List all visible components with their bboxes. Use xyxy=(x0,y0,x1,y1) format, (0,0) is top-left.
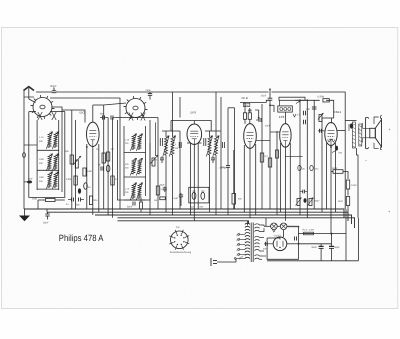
svg-text:EK2: EK2 xyxy=(80,111,86,115)
svg-text:EF8: EF8 xyxy=(279,115,285,119)
label ChB xyxy=(242,96,248,100)
capacitor blob mid xyxy=(304,198,321,203)
wire x300 xyxy=(299,99,301,215)
wire x180 xyxy=(179,97,181,209)
wire EF8 feed xyxy=(285,156,302,158)
resistor R10 rst xyxy=(154,197,165,202)
capacitor C22 xyxy=(297,111,306,117)
capacitor mid300 xyxy=(300,190,307,194)
switch contact X2 xyxy=(52,112,56,120)
svg-text:4KΩ: 4KΩ xyxy=(338,200,343,203)
switch contact X1 xyxy=(38,112,42,120)
tube EBC3 xyxy=(244,124,257,149)
label mains xyxy=(238,255,244,260)
wire x228 xyxy=(227,108,229,215)
capacitor T1 side xyxy=(160,138,181,148)
wire EBC3 pin3 xyxy=(256,141,270,216)
wire x235 xyxy=(228,108,235,209)
label EK2 xyxy=(80,111,86,115)
potentiometer P1 xyxy=(279,97,305,103)
resistor R4v xyxy=(83,168,93,176)
arrow det1 xyxy=(293,114,296,117)
svg-text:0.1μF: 0.1μF xyxy=(172,197,179,200)
svg-text:(A): (A) xyxy=(302,167,305,170)
wire rect loop xyxy=(267,238,298,259)
wire ps fuse line xyxy=(299,233,347,235)
wire trans top xyxy=(345,120,356,122)
resistor R19 xyxy=(338,197,350,206)
svg-text:25nF: 25nF xyxy=(261,95,267,98)
speck right margin 2 xyxy=(389,211,390,212)
wire lamps right xyxy=(287,226,299,238)
rotary switch S1 xyxy=(31,95,55,119)
wire OSC row3 bot xyxy=(124,199,146,201)
wire OSC row1 bot xyxy=(124,152,146,154)
svg-text:40nF: 40nF xyxy=(332,167,338,170)
label L3 xyxy=(39,158,45,165)
svg-text:0.5M: 0.5M xyxy=(66,178,71,181)
transformer T4 primary xyxy=(245,221,250,259)
wire EF9 pin2 xyxy=(193,144,195,220)
wire EF8 pin3 xyxy=(289,143,291,209)
wire x108 xyxy=(107,118,109,216)
capacitor C4 50nF xyxy=(100,112,108,119)
wire RF box outer xyxy=(29,112,65,198)
wire x274top xyxy=(270,105,274,112)
svg-text:1nF: 1nF xyxy=(306,108,311,111)
capacitor C26 plate xyxy=(295,237,297,241)
resistor R3 05M xyxy=(66,176,77,185)
wire RF row1 bot xyxy=(37,149,59,151)
wire AZ1 right xyxy=(287,243,300,245)
wire lamps mid xyxy=(277,226,283,237)
capacitor C8b xyxy=(66,198,74,207)
trimmer TR2 xyxy=(150,123,158,167)
wire res right xyxy=(326,100,334,118)
wire bus rail 2 xyxy=(47,212,348,221)
label L1 xyxy=(39,136,44,143)
label Pu2 xyxy=(303,228,315,231)
coil L7 L8 pair xyxy=(130,134,142,152)
svg-text:0.4M: 0.4M xyxy=(351,184,356,187)
ground main xyxy=(19,209,30,221)
resistor R5b xyxy=(89,196,98,205)
wire EBL1 pin2 xyxy=(330,145,332,235)
wire bus rail 4 xyxy=(118,218,355,228)
wire top rail xyxy=(56,91,269,93)
coil L11 L12 pair xyxy=(130,183,142,201)
wire T2 top xyxy=(205,92,221,137)
wire RF inner left xyxy=(36,120,38,190)
wire x270 xyxy=(269,105,271,209)
wire T2 down1 xyxy=(209,155,211,212)
label L11 xyxy=(125,188,130,195)
label T2 xyxy=(220,166,228,169)
svg-text:Rst: Rst xyxy=(154,199,158,202)
wire r19 down xyxy=(347,206,349,216)
svg-text:50μF: 50μF xyxy=(315,199,321,202)
svg-text:m: m xyxy=(161,188,163,191)
wire mains lead xyxy=(217,259,236,263)
wire osc top xyxy=(50,98,120,209)
resistor R13 xyxy=(248,108,252,124)
wire trans bottom xyxy=(357,148,359,218)
svg-text:1000: 1000 xyxy=(39,176,45,179)
label AZ1 xyxy=(274,234,282,237)
label Philips 478 A xyxy=(59,233,104,243)
wire bus rail 1 xyxy=(24,209,344,218)
wire T2 down2 xyxy=(215,155,217,215)
label A M1 xyxy=(298,165,319,170)
svg-text:2M: 2M xyxy=(175,147,178,150)
capacitor C7e xyxy=(78,188,81,194)
wire EF9 topcap xyxy=(171,121,211,132)
svg-text:50nF: 50nF xyxy=(312,246,318,249)
wire EK2 left rail xyxy=(62,110,85,209)
capacitor C50nF bus xyxy=(43,212,50,224)
speaker terminal top xyxy=(374,116,382,125)
wire r17 left xyxy=(331,171,333,173)
svg-text:Sockelbezeichnung: Sockelbezeichnung xyxy=(170,251,192,254)
capacitor C28 elco xyxy=(329,244,340,261)
wire x221 xyxy=(220,97,222,209)
coil L9 L10 pair xyxy=(130,158,142,176)
wire EF8 pin2 xyxy=(284,147,286,221)
switch contact X4 xyxy=(141,113,145,121)
tube EK2 xyxy=(87,122,100,146)
capacitor T2 side xyxy=(204,138,225,148)
capacitor C20 25nF xyxy=(261,88,273,105)
transformer T4 core xyxy=(251,223,253,263)
electrolytic box xyxy=(189,187,209,208)
wire speaker return xyxy=(357,218,359,261)
wire RF box top xyxy=(29,111,65,113)
output transformer T3 xyxy=(352,122,362,148)
trimmer TRb xyxy=(308,198,314,206)
svg-text:D.F: D.F xyxy=(176,226,180,229)
speck mid margin xyxy=(365,160,366,161)
resistor R12 xyxy=(243,103,246,124)
svg-text:0.25M: 0.25M xyxy=(317,95,324,98)
transformer T4 taps xyxy=(236,232,245,257)
capacitor C11e xyxy=(106,165,110,172)
wire antenna left drop xyxy=(23,91,25,210)
wire EK2 pin1 xyxy=(86,144,88,209)
svg-text:EBL1: EBL1 xyxy=(334,110,342,114)
svg-text:40655: 40655 xyxy=(357,128,360,134)
tube AZ1 xyxy=(273,237,287,251)
capacitor C6e xyxy=(84,183,92,189)
wire lamps left xyxy=(264,218,271,227)
resistor R6 1M xyxy=(96,148,105,163)
svg-text:150pF: 150pF xyxy=(50,85,58,88)
wire x277 xyxy=(270,131,280,215)
wire r18 down xyxy=(347,189,349,196)
svg-text:EF9: EF9 xyxy=(191,111,197,115)
wire x314 xyxy=(313,100,315,209)
wire OSC box outer xyxy=(118,120,151,200)
wire x262 xyxy=(261,104,263,209)
capacitor C19h xyxy=(256,118,271,128)
capacitor C25 xyxy=(349,123,353,131)
terminal left xyxy=(23,145,38,157)
capacitor C1 150pF xyxy=(50,85,58,93)
trimmer TR3 xyxy=(318,113,324,122)
wire EF8 grid xyxy=(284,112,286,124)
wire EBC3 pin2 xyxy=(249,148,251,217)
wire B+ low xyxy=(344,170,346,209)
wire antenna to switch xyxy=(24,97,36,103)
wire RF inner right xyxy=(58,120,60,190)
wire OSC row2 bot xyxy=(124,176,146,178)
coil L5 L6 pair xyxy=(46,172,58,190)
capacitor C16 01 xyxy=(172,193,183,206)
svg-text:25nF: 25nF xyxy=(146,89,152,92)
wire EF8 pin1 xyxy=(280,143,282,212)
wire RF down xyxy=(38,200,40,209)
wire EK2 top xyxy=(93,105,104,122)
wire bus rail 3 xyxy=(95,215,352,224)
resistor R11 xyxy=(232,150,242,209)
antenna A1 xyxy=(24,87,35,99)
coil L3 L4 pair xyxy=(46,154,58,172)
svg-text:1M: 1M xyxy=(111,148,114,151)
capacitor C13 pad xyxy=(156,186,162,195)
svg-text:1000: 1000 xyxy=(39,158,45,161)
label lamps xyxy=(288,226,300,229)
capacitor C9b xyxy=(76,198,84,207)
wire AZ1 left cap xyxy=(263,242,273,251)
speaker terminal bottom xyxy=(374,143,382,150)
wire T1 down2 xyxy=(172,155,174,215)
wire x307 xyxy=(306,99,308,217)
label L9 xyxy=(125,163,129,170)
wire top left xyxy=(36,91,52,93)
wire top rail right xyxy=(272,92,346,121)
wire osc right rail xyxy=(149,143,151,215)
wire det top xyxy=(240,103,266,120)
label EF8 xyxy=(279,115,285,119)
label Sockelschaltung xyxy=(170,251,192,254)
wire grid EK2 xyxy=(52,107,62,192)
wire EBL1 top xyxy=(322,118,334,123)
wire EBL1 anode xyxy=(332,131,345,155)
capacitor C23 xyxy=(304,120,306,124)
resistor R14 xyxy=(260,153,268,162)
switch contact X3 xyxy=(129,113,133,121)
label socket top xyxy=(176,226,180,229)
svg-text:Ch.B: Ch.B xyxy=(242,96,248,100)
coil box L13 xyxy=(278,100,293,112)
resistor R15 xyxy=(268,158,271,167)
wire rail2 drop xyxy=(46,209,48,212)
wire mains plug xyxy=(211,258,217,266)
wire pot line xyxy=(295,99,320,101)
speck right margin 1 xyxy=(389,129,390,130)
resistor R9 osc xyxy=(140,198,143,212)
resistor R8 xyxy=(111,176,119,185)
resistor R7 xyxy=(106,148,113,161)
wire EBC3 pin1 xyxy=(243,145,245,212)
resistor R2 50n xyxy=(65,150,74,164)
wire T1 top xyxy=(162,92,180,137)
tube socket diagram xyxy=(169,230,189,250)
capacitor C2 4nF xyxy=(24,178,34,184)
label EBL1 xyxy=(334,110,342,114)
wire x158 xyxy=(116,118,158,210)
resistor R1M xyxy=(32,198,65,202)
rotary switch S2 xyxy=(124,96,148,120)
capacitor C10h xyxy=(98,164,103,171)
label L7 xyxy=(125,139,130,146)
wire EBL1 pin1 xyxy=(326,143,328,209)
svg-text:50μF: 50μF xyxy=(334,246,340,249)
wire OSC inner left xyxy=(123,126,125,196)
wire EK2 pin2 xyxy=(92,147,94,216)
wire EK2 right xyxy=(103,105,105,209)
transformer T4 sec fil xyxy=(255,255,266,259)
wire B+ vertical xyxy=(344,121,346,170)
resistor R16 025M xyxy=(317,95,329,102)
svg-text:50nF: 50nF xyxy=(43,222,49,225)
svg-text:Philips 478 A: Philips 478 A xyxy=(59,233,104,243)
wire EF9 pin3 xyxy=(198,143,201,209)
tube EBL1 xyxy=(325,123,337,146)
wire x112 xyxy=(112,118,114,218)
svg-text:+4nF: +4nF xyxy=(28,178,34,181)
svg-text:1-10: 1-10 xyxy=(39,136,44,139)
wire S2 to EK2 top xyxy=(104,103,126,105)
tube EF9 xyxy=(187,124,202,144)
svg-text:(M1): (M1) xyxy=(314,167,319,170)
capacitor C12 50nF xyxy=(127,202,135,209)
arrow lamp1 xyxy=(273,230,276,232)
svg-text:220V: 220V xyxy=(309,228,315,231)
wire r17 right xyxy=(343,172,348,180)
wire EBL1 pin3 xyxy=(335,143,338,212)
svg-text:1M: 1M xyxy=(96,148,99,151)
label EF9 xyxy=(191,111,197,115)
wire RF row3 bot xyxy=(37,188,59,190)
label VKB xyxy=(243,103,250,107)
IF transformer T2 xyxy=(206,136,219,157)
transformer T4 sec HT xyxy=(255,236,264,251)
wire tap bottom xyxy=(234,258,245,260)
label T1 xyxy=(175,143,178,150)
capacitor C14 4nF xyxy=(155,157,165,164)
capacitor C18 50n xyxy=(222,163,231,172)
capacitor C24 10nF xyxy=(306,107,317,111)
svg-text:4μF: 4μF xyxy=(191,205,195,208)
trimmer TRa xyxy=(296,198,302,206)
wire T1 down1 xyxy=(165,155,167,212)
wire EF9 pin1 xyxy=(187,143,191,215)
wire OSC inner right xyxy=(145,126,147,196)
lamp LA1 xyxy=(271,223,278,230)
svg-text:1000: 1000 xyxy=(87,170,93,173)
trimmer TR1 xyxy=(73,156,81,168)
wire RF row2 bot xyxy=(37,169,59,171)
capacitor C21 xyxy=(276,150,279,158)
wire EK2 left2 xyxy=(75,120,77,209)
svg-text:50nF: 50nF xyxy=(127,206,133,209)
wire ps bottom xyxy=(267,236,358,261)
svg-text:1MΩ: 1MΩ xyxy=(32,198,37,201)
speaker LS xyxy=(363,117,382,148)
wire x322 xyxy=(318,118,325,212)
svg-text:50μF: 50μF xyxy=(160,184,166,187)
resistor R18 xyxy=(346,180,356,189)
capacitor C1b 25nF xyxy=(146,89,153,100)
IF transformer T1 xyxy=(163,136,176,157)
wire elco top xyxy=(299,234,332,244)
fuse F1 xyxy=(299,232,314,235)
capacitor C15 50nF xyxy=(160,184,167,192)
wire det step xyxy=(266,100,271,106)
resistor R17 xyxy=(332,167,343,173)
wire ps right v xyxy=(345,209,347,236)
capacitor C27 elco xyxy=(312,244,324,261)
transformer T4 sec lamps xyxy=(255,224,264,232)
tube EF8 xyxy=(280,124,291,148)
label L5 xyxy=(39,176,45,183)
capacitor C17 xyxy=(211,157,215,164)
capacitor C5 xyxy=(111,115,116,119)
lamp LA2 xyxy=(280,223,287,230)
wire EK2 pin3 xyxy=(98,144,100,212)
svg-text:Pu 2: Pu 2 xyxy=(303,228,308,231)
wire bus rail 5 xyxy=(118,221,249,224)
wire rect loop top xyxy=(267,237,280,239)
coil L1 L2 pair xyxy=(46,132,58,150)
